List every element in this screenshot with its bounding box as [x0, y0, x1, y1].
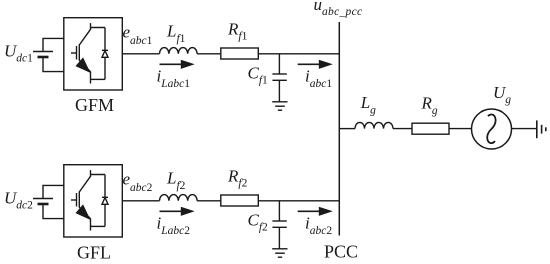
resistor R_f1	[221, 48, 258, 59]
wire U_g to grid ground	[512, 128, 537, 130]
label R_f2	[227, 167, 248, 190]
svg-text:Udc1: Udc1	[4, 42, 33, 65]
svg-text:GFM: GFM	[75, 95, 114, 115]
label L_f2	[166, 169, 186, 193]
wire R_f2 to PCC bus	[258, 200, 339, 202]
inductor L_g	[355, 122, 393, 128]
svg-text:iLabc2: iLabc2	[157, 214, 191, 238]
svg-text:Ug: Ug	[493, 83, 511, 106]
current arrow i_Labc1	[160, 60, 195, 69]
svg-text:iLabc1: iLabc1	[157, 67, 191, 91]
dc source Udc1 battery	[33, 38, 64, 73]
current arrow i_abc2	[298, 207, 333, 216]
node u_abc_pcc label	[314, 0, 363, 18]
wire L_f1 to R_f1	[197, 53, 221, 55]
svg-text:GFL: GFL	[77, 242, 111, 262]
PCC bus wire	[338, 22, 340, 236]
wire L_g to R_g	[393, 128, 412, 130]
svg-text:Lf1: Lf1	[166, 22, 186, 46]
svg-text:Rf2: Rf2	[227, 167, 248, 190]
inverter U1 (GFM) box	[64, 18, 123, 90]
current arrow i_abc1	[298, 60, 333, 69]
transistor Q1 (IGBT)	[71, 23, 91, 83]
label PCC	[324, 242, 358, 262]
svg-text:PCC: PCC	[324, 242, 358, 262]
svg-text:Cf2: Cf2	[248, 210, 269, 233]
label R_f1	[227, 20, 248, 43]
label GFL	[77, 242, 111, 262]
wire e_abc1 output	[122, 53, 159, 55]
svg-text:Lg: Lg	[360, 93, 376, 117]
svg-text:Cf1: Cf1	[248, 63, 269, 86]
wire R_f1 to PCC bus	[258, 53, 339, 55]
svg-text:Udc2: Udc2	[4, 189, 33, 212]
wire R_g to U_g	[449, 128, 472, 130]
inductor L_f2	[160, 195, 198, 201]
svg-text:uabc_pcc: uabc_pcc	[314, 0, 363, 18]
inverter U2 (GFL) box	[64, 165, 123, 237]
svg-text:Rg: Rg	[421, 93, 438, 117]
inductor L_f1	[160, 48, 198, 54]
label U_dc2	[4, 189, 33, 212]
svg-text:eabc2: eabc2	[123, 170, 153, 195]
wire bottom rail D1-Q1	[91, 78, 106, 80]
ac source U_g	[472, 109, 512, 149]
label C_f2	[248, 210, 269, 233]
label e_abc1	[123, 23, 153, 48]
label R_g	[421, 93, 438, 117]
label U_g	[493, 83, 511, 106]
wire top rail Q2-D2	[91, 175, 106, 198]
label i_Labc2	[157, 214, 191, 238]
ground under C_f2	[272, 249, 287, 257]
ground under C_f1	[272, 102, 287, 110]
label L_f1	[166, 22, 186, 46]
label GFM	[75, 95, 114, 115]
transistor Q2 (IGBT)	[71, 170, 91, 230]
svg-text:Rf1: Rf1	[227, 20, 248, 43]
ground (grid, rotated)	[537, 120, 546, 138]
svg-text:eabc1: eabc1	[123, 23, 153, 48]
label U_dc1	[4, 42, 33, 65]
dc source Udc2 battery	[33, 185, 64, 220]
label i_abc1	[305, 67, 332, 91]
diode D1	[102, 50, 108, 79]
resistor R_f2	[221, 195, 258, 206]
capacitor C_f1	[272, 54, 286, 102]
svg-text:Lf2: Lf2	[166, 169, 186, 193]
label i_Labc1	[157, 67, 191, 91]
svg-text:iabc1: iabc1	[305, 67, 332, 91]
wire e_abc2 output	[122, 200, 159, 202]
wire bottom rail D2-Q2	[91, 225, 106, 227]
wire top rail Q1-D1	[91, 28, 106, 51]
resistor R_g	[412, 123, 449, 134]
wire PCC to L_g	[339, 128, 355, 130]
label C_f1	[248, 63, 269, 86]
capacitor C_f2	[272, 201, 286, 249]
label L_g	[360, 93, 376, 117]
diode D2	[102, 197, 108, 226]
current arrow i_Labc2	[160, 207, 195, 216]
label e_abc2	[123, 170, 153, 195]
svg-text:iabc2: iabc2	[305, 214, 332, 238]
label i_abc2	[305, 214, 332, 238]
wire L_f2 to R_f2	[197, 200, 221, 202]
